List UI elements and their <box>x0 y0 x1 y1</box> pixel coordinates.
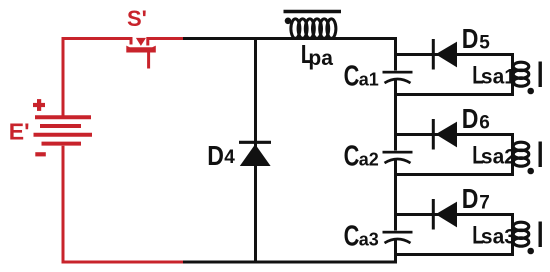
label Lsa2 <box>472 141 516 169</box>
svg-text:sa3: sa3 <box>481 226 516 249</box>
svg-text:sa1: sa1 <box>481 66 516 89</box>
wire: branch 1 right vertical <box>511 53 514 96</box>
Lpa polarity dot <box>285 18 292 25</box>
wire: red top wire right of switch <box>149 37 184 40</box>
svg-text:S': S' <box>127 6 147 31</box>
svg-text:C: C <box>344 61 360 93</box>
inductor Lsa3 (coil) <box>513 222 529 246</box>
wire: branch 3 top <box>394 213 513 216</box>
battery E' <box>34 117 93 143</box>
svg-text:a2: a2 <box>359 149 379 169</box>
label Lsa1 <box>472 61 516 89</box>
svg-text:D: D <box>462 184 479 214</box>
wire: black top wire from node to right rail <box>183 37 397 40</box>
svg-text:a1: a1 <box>359 69 379 89</box>
capacitor Ca2 <box>383 151 413 163</box>
label D6 <box>462 104 490 134</box>
wire: branch 2 bottom <box>394 173 514 176</box>
svg-text:pa: pa <box>308 47 333 70</box>
label + (battery positive) <box>33 99 45 111</box>
label Ca1 <box>344 61 379 93</box>
Lsa3 polarity dot <box>527 248 534 255</box>
label Lpa <box>301 40 333 70</box>
svg-text:a3: a3 <box>359 229 379 249</box>
label D7 <box>462 184 490 214</box>
Lsa3 core bar <box>539 222 542 248</box>
wire: branch 2 right vertical <box>511 133 514 176</box>
Lsa2 polarity dot <box>527 168 534 175</box>
svg-text:D: D <box>462 24 479 54</box>
wire: branch 2 top <box>394 133 513 136</box>
label Ca2 <box>344 141 379 173</box>
svg-text:D: D <box>462 104 479 134</box>
diode D6 (pointing left) <box>433 119 457 150</box>
wire: red left rail lower (battery - down to bottom wire) <box>62 146 65 264</box>
wire: red bottom wire <box>62 261 184 264</box>
wire: branch 1 bottom <box>394 93 514 96</box>
diode D5 (pointing left) <box>433 39 457 70</box>
inductor Lsa2 (coil) <box>513 142 529 166</box>
label - (battery negative) <box>35 152 46 156</box>
inductor Lpa (coil on top wire) <box>291 19 336 38</box>
switch S' (red IGBT-style symbol) <box>126 37 156 69</box>
Lpa core bar <box>284 10 342 13</box>
label Lsa3 <box>472 221 516 249</box>
capacitor Ca1 <box>383 71 413 83</box>
wire: red top wire left segment (battery to switch S') <box>62 37 133 40</box>
svg-text:C: C <box>344 221 360 253</box>
Lsa2 core bar <box>539 142 542 168</box>
svg-text:6: 6 <box>479 113 490 134</box>
wire: branch 3 bottom <box>394 253 514 256</box>
inductor Lsa1 (coil) <box>513 62 529 86</box>
svg-text:5: 5 <box>479 33 490 54</box>
svg-text:C: C <box>344 141 360 173</box>
label D4 <box>207 141 235 171</box>
wire: black D4 branch vertical <box>254 37 257 262</box>
capacitor Ca3 <box>383 231 413 243</box>
svg-text:E': E' <box>9 119 30 145</box>
Lsa1 polarity dot <box>527 88 534 95</box>
diode D4 (vertical, pointing up) <box>239 142 271 166</box>
svg-text:7: 7 <box>479 193 490 214</box>
wire: black bottom wire <box>183 261 397 264</box>
wire: red left rail upper (top wire down to battery +) <box>62 37 65 116</box>
Lsa1 core bar <box>539 62 542 88</box>
svg-text:D: D <box>207 141 224 171</box>
diode D7 (pointing left) <box>433 199 457 230</box>
wire: main right rail (with gaps at capacitors) <box>394 37 397 264</box>
label Ca3 <box>344 221 379 253</box>
svg-text:sa2: sa2 <box>481 146 516 169</box>
wire: branch 3 right vertical <box>511 213 514 256</box>
svg-text:4: 4 <box>224 147 235 168</box>
label D5 <box>462 24 490 54</box>
wire: branch 1 top <box>394 53 513 56</box>
